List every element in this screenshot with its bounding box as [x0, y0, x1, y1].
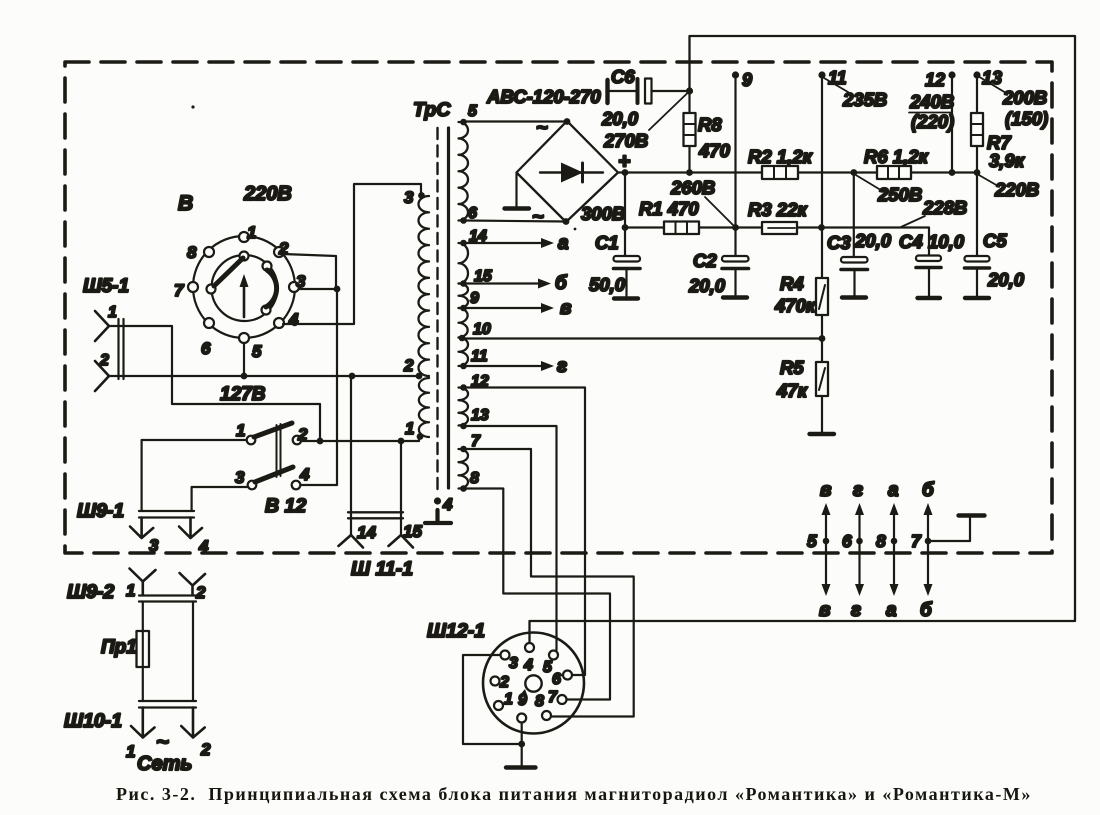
connector Ш11-1 pin 15 fork symbol: [389, 535, 414, 548]
ground of R5: [821, 396, 823, 432]
svg-text:б: б: [555, 273, 568, 294]
wire: B12 contact 3 to Ш9-1 pin 4: [192, 487, 248, 510]
svg-text:7: 7: [548, 689, 558, 706]
svg-text:в: в: [820, 480, 831, 501]
svg-text:4: 4: [288, 310, 299, 329]
switch B rotor contact top: [240, 252, 249, 261]
svg-text:4: 4: [523, 657, 533, 674]
connector Ш5-1 pin 1 socket symbol: [95, 311, 109, 341]
Ш12-1 contact 6: [563, 671, 572, 680]
Ш12-1 contact 1: [494, 701, 503, 710]
rotary switch B outer circle: [193, 236, 295, 338]
Ш12-1 contact 7: [558, 695, 567, 704]
svg-text:8: 8: [470, 470, 479, 487]
secondary pin 15 dot: [460, 280, 467, 287]
Ш12-1 contact 9: [517, 714, 526, 723]
svg-text:3: 3: [509, 655, 518, 672]
wire: node 12 down to rail: [951, 75, 953, 173]
node 13 terminal dot: [973, 71, 980, 78]
wire: Ш12-1 contact 9 to ground: [521, 723, 523, 766]
svg-text:Ш9-2: Ш9-2: [67, 581, 114, 603]
wire: R4 to R5: [821, 315, 823, 362]
wire: junction down to Ш11-1 pin 15: [400, 441, 402, 535]
switch B contact 6: [204, 318, 214, 328]
svg-text:С5: С5: [983, 230, 1007, 251]
wire: 228В line to C4: [822, 228, 930, 256]
svg-text:9: 9: [470, 290, 479, 307]
connector Ш9-1 body bars: [139, 511, 194, 518]
switch B rotor arc segment: [266, 270, 277, 307]
svg-text:3: 3: [404, 188, 414, 207]
switch B contact 8: [204, 247, 214, 257]
switch B contact 3: [289, 282, 299, 292]
junction dot 250В node / C3 branch: [850, 169, 857, 176]
wire: pin 5 to bridge AC top: [466, 120, 567, 122]
switch B12 contact 3: [248, 481, 257, 490]
junction dot 260В node: [732, 224, 739, 231]
svg-text:1: 1: [236, 421, 245, 440]
svg-text:20,0: 20,0: [688, 275, 726, 296]
svg-text:3: 3: [149, 536, 159, 555]
wire: rail between R2 and R6: [798, 171, 877, 173]
svg-text:5: 5: [807, 531, 817, 551]
wire: pin 12 to Ш12-1 contact 6: [466, 388, 585, 676]
svg-text:5: 5: [252, 342, 262, 361]
svg-text:240В: 240В: [909, 91, 954, 112]
node 12 terminal dot: [948, 71, 955, 78]
junction dot 220В node: [974, 169, 981, 176]
capacitor C3: [841, 257, 868, 263]
wire: 220В node down to C5: [976, 173, 978, 257]
svg-text:а: а: [886, 600, 897, 621]
svg-text:260В: 260В: [670, 177, 715, 198]
bridge AC top vertex dot: [564, 118, 571, 125]
pointer line to 228В: [901, 216, 925, 227]
svg-text:6: 6: [552, 671, 561, 688]
resistor R4: [816, 278, 828, 315]
capacitor C6 lead left: [610, 90, 636, 92]
output arrow v from pin 9: [466, 307, 542, 309]
svg-text:Рис. 3-2. Принципиальная схем: Рис. 3-2. Принципиальная схема блока пит…: [116, 784, 1032, 804]
secondary pin 6 dot: [460, 217, 467, 224]
switch B contact 1: [239, 232, 249, 242]
switch B contact 4: [274, 318, 284, 328]
Ш12-1 contact 4: [525, 643, 534, 652]
transformer secondary winding 10-11: [459, 338, 469, 367]
transformer screen dashed line: [436, 128, 438, 494]
svg-text:8: 8: [187, 243, 197, 262]
transformer secondary winding 5-6: [459, 122, 469, 221]
wire: junction down to В12 contact 4: [301, 289, 337, 485]
junction dot R1 left / 300В node: [622, 224, 629, 231]
junction dot node 12 line: [949, 169, 956, 176]
dashed enclosure border of power-supply unit: [65, 62, 1052, 553]
junction dot R4/R5/pin10: [819, 335, 826, 342]
Ш12-1 contact 2: [491, 677, 500, 686]
connector Ш9-2 body bars: [139, 596, 196, 602]
primary pin 1 dot: [417, 433, 424, 440]
primary pin 2 dot: [416, 373, 423, 380]
svg-text:б: б: [922, 480, 935, 501]
junction dot Ш11-1 pin 14 branch on 127В line: [349, 373, 356, 380]
svg-text:~: ~: [156, 729, 169, 754]
pointer line to 235В: [824, 78, 848, 92]
junction dot C6/R8/loop node: [686, 87, 693, 94]
svg-text:R8: R8: [698, 114, 722, 135]
svg-text:Ш 11-1: Ш 11-1: [351, 558, 413, 580]
connector Ш11-1 pin 14 fork symbol: [339, 535, 364, 548]
svg-text:220В: 220В: [243, 183, 292, 205]
capacitor C6 negative plate: [636, 79, 640, 103]
connector Ш9-1 pin 4 arrow symbol: [179, 518, 202, 539]
wire: Ш5-1 pin 1 to junction on В12 contact 2 net: [109, 326, 320, 441]
wire: Ш9-2 pin1 to Ш10-1 pin1 through fuse: [142, 602, 144, 702]
capacitor C6 chassis bar: [605, 80, 609, 103]
switch B12 contact 2: [293, 436, 302, 445]
svg-text:50,0: 50,0: [589, 274, 626, 295]
resistor R1: [625, 226, 736, 228]
svg-text:В: В: [178, 192, 193, 215]
svg-text:1: 1: [126, 742, 135, 761]
junction dot Ш5-1 pin1 branch: [317, 438, 324, 445]
svg-text:1: 1: [126, 581, 135, 600]
bridge diode symbol: [540, 171, 603, 173]
svg-text:б: б: [920, 600, 933, 621]
Ш12-1 contact 5: [549, 651, 558, 660]
Ш12-1 contact 3: [501, 651, 510, 660]
capacitor C1: [614, 256, 641, 262]
svg-text:270В: 270В: [603, 130, 648, 151]
transformer secondary winding 12-13: [459, 388, 469, 426]
wire: pin 7 arrow to chassis: [928, 518, 970, 541]
node 9 terminal dot: [732, 71, 739, 78]
wire: switch contact 3 to junction: [299, 288, 337, 290]
connector Ш10-1 pin 2 arrow symbol: [181, 708, 205, 738]
svg-text:R1 470: R1 470: [639, 198, 699, 219]
pointer line to 260В: [705, 197, 734, 226]
svg-text:С6: С6: [611, 66, 635, 87]
switch B rotor arrow: [243, 281, 246, 317]
bridge AC bottom vertex dot: [563, 218, 570, 225]
transformer primary winding lower section: [419, 378, 429, 437]
svg-text:5: 5: [468, 103, 478, 120]
svg-text:ТрС: ТрС: [413, 99, 451, 121]
wire: pin 10 to R4/R5 junction: [462, 337, 822, 339]
wire: pin 7 to Ш12-1 contact 8: [466, 449, 634, 717]
svg-text:7: 7: [174, 281, 185, 300]
transformer secondary winding 7-8: [459, 449, 469, 489]
svg-text:Сеть: Сеть: [137, 753, 192, 775]
svg-text:а: а: [888, 480, 899, 501]
svg-text:470к: 470к: [774, 295, 817, 316]
svg-text:В 12: В 12: [265, 495, 306, 517]
connector Ш12-1 shell circle: [483, 633, 584, 734]
connector Ш11-1 body bars: [348, 512, 403, 518]
transformer secondary winding 15-9: [459, 284, 469, 309]
output arrows field: arrow pin 6 (g): [858, 511, 860, 588]
svg-text:АВС-120-270: АВС-120-270: [486, 86, 601, 107]
junction dot contact 5 tap on 127В line: [241, 373, 248, 380]
wire: switch contact 5 to 127В line: [243, 343, 245, 376]
svg-text:г: г: [557, 356, 567, 377]
pointer line to 250В: [855, 175, 884, 193]
svg-text:Ш9-1: Ш9-1: [77, 500, 124, 522]
svg-text:6: 6: [842, 531, 852, 551]
svg-text:12: 12: [925, 70, 945, 90]
chassis bar near pin 7 arrow: [959, 513, 985, 517]
wire: Ш9-2 pin2 to Ш10-1 pin2: [192, 602, 194, 702]
chassis bar under Ш12-1: [506, 765, 536, 769]
switch B rotor contact NE: [263, 262, 272, 271]
svg-text:в: в: [819, 600, 830, 621]
switch B contact 5: [239, 333, 249, 343]
svg-text:14: 14: [357, 523, 376, 542]
svg-text:200В: 200В: [1002, 87, 1047, 108]
connector Ш5-1 pin 2 socket symbol: [95, 361, 109, 391]
svg-text:8: 8: [535, 693, 544, 710]
wire: switch contact 4 to transformer pin 3: [283, 184, 421, 324]
stray ink dot: [711, 290, 714, 293]
svg-text:R4: R4: [780, 273, 804, 294]
switch B12 lower lever: [255, 467, 293, 482]
wire: +300V rail from bridge to R2: [618, 171, 762, 173]
svg-text:R6 1,2к: R6 1,2к: [864, 146, 930, 167]
switch B rotor contact W: [207, 285, 216, 294]
svg-text:(150): (150): [1005, 108, 1048, 129]
secondary pin 11 dot: [460, 363, 467, 370]
svg-text:220В: 220В: [994, 179, 1039, 200]
pointer line to 200В: [980, 77, 1007, 93]
junction dot contact3/contact9 ground net: [518, 741, 525, 748]
svg-text:2: 2: [499, 674, 509, 691]
switch B contact 7: [188, 282, 198, 292]
transformer primary winding upper section (220V): [418, 196, 429, 376]
secondary pin 12 dot: [460, 384, 467, 391]
pointer line to 220В: [978, 175, 998, 187]
svg-text:228В: 228В: [922, 197, 967, 218]
svg-text:11: 11: [471, 348, 488, 365]
connector Ш5-1 body bars: [119, 319, 124, 379]
switch B rotor bar: [214, 258, 243, 286]
secondary pin 10 dot: [459, 335, 466, 342]
output arrows field: arrow pin 8 (a): [893, 511, 895, 588]
svg-text:13: 13: [471, 407, 489, 424]
capacitor C2: [734, 255, 736, 257]
wire: pin 13 to Ш12-1 contact 5: [466, 426, 557, 650]
junction dot contacts 2/3: [334, 286, 341, 293]
svg-text:С1: С1: [595, 232, 619, 253]
wire: switch contact 2 to junction: [283, 254, 336, 287]
wire: 127В line from Ш5-1 pin 2 to transformer pin 2: [109, 375, 419, 377]
wire: B12 contact 1 to Ш9-1 pin 3: [142, 440, 247, 510]
svg-text:R3 22к: R3 22к: [748, 199, 808, 220]
svg-text:Ш10-1: Ш10-1: [64, 710, 122, 732]
Ш12-1 key center: [525, 675, 541, 691]
wire: Ш12-1 contact 3 loop to ground: [463, 655, 522, 744]
switch B12 upper lever: [254, 423, 292, 437]
svg-text:4: 4: [299, 465, 310, 484]
resistor R7: [976, 75, 978, 173]
wire: node 270В / C6 up over outer loop to Ш12-1 contact 4: [530, 36, 1076, 643]
connector Ш10-1 body bars: [139, 701, 196, 708]
resistor R6: [877, 166, 911, 179]
output arrows field: arrow pin 7 (b): [927, 511, 929, 588]
wire: node 9 down to C2: [734, 75, 736, 256]
wire: node 11 down to R4: [821, 75, 823, 278]
svg-text:8: 8: [876, 531, 886, 551]
svg-text:300В: 300В: [581, 203, 625, 224]
svg-text:20,0: 20,0: [601, 108, 639, 129]
svg-text:Ш5-1: Ш5-1: [83, 276, 129, 297]
svg-text:2: 2: [99, 352, 109, 369]
capacitor C6 lead right: [652, 90, 690, 92]
transformer secondary winding 9-10: [459, 308, 468, 338]
transformer core solid line: [447, 128, 450, 488]
chassis bar of screen terminal: [425, 510, 451, 523]
fuse Pr1: [137, 631, 150, 667]
svg-text:9: 9: [518, 692, 527, 709]
switch B12 mechanical link: [277, 424, 281, 477]
transformer secondary winding 14-15: [459, 243, 469, 284]
svg-text:Пр1: Пр1: [101, 637, 137, 658]
secondary pin 8 dot: [460, 485, 467, 492]
switch B12 contact 1: [247, 436, 256, 445]
primary pin 3 dot: [418, 192, 425, 199]
switch B12 contact 4: [292, 481, 301, 490]
resistor R3: [736, 226, 822, 228]
svg-text:7: 7: [911, 531, 922, 551]
svg-text:127В: 127В: [220, 384, 266, 405]
svg-text:470: 470: [698, 140, 731, 161]
svg-text:10,0: 10,0: [928, 231, 965, 252]
svg-text:1: 1: [405, 419, 414, 438]
svg-text:С2: С2: [693, 250, 717, 271]
svg-text:47к: 47к: [776, 380, 809, 401]
output arrows field: arrow pin 5 (v): [825, 511, 827, 588]
svg-text:г: г: [851, 600, 861, 621]
svg-text:9: 9: [742, 70, 752, 90]
resistor R2: [762, 166, 798, 179]
svg-text:(220): (220): [911, 111, 954, 132]
node 11 terminal dot: [818, 71, 825, 78]
resistor R5: [816, 362, 828, 396]
wire: 250В node down to C3: [853, 173, 855, 258]
svg-text:15: 15: [403, 522, 422, 541]
Ш12-1 contact 8: [542, 711, 551, 720]
connector Ш9-1 pin 3 arrow symbol: [130, 518, 153, 539]
svg-text:10: 10: [473, 321, 491, 338]
svg-text:3: 3: [235, 468, 245, 487]
svg-text:в: в: [560, 298, 571, 319]
svg-text:С3: С3: [827, 232, 851, 253]
output arrow b from pin 15: [466, 282, 539, 284]
wire: 127В junction down to Ш11-1 pin 14: [350, 376, 352, 535]
stray ink dot: [191, 105, 194, 108]
output arrow g from pin 11: [466, 365, 542, 367]
wire: +300V node down to C1: [624, 173, 626, 257]
wire: rail after R6 to 220В node: [910, 171, 977, 173]
connector Ш9-2 pin 2 fork symbol: [180, 573, 206, 595]
secondary pin 13 dot: [460, 423, 467, 430]
svg-text:3,9к: 3,9к: [989, 150, 1026, 171]
svg-text:20,0: 20,0: [987, 269, 1025, 290]
svg-text:~: ~: [532, 206, 544, 228]
pointer line to 270В: [649, 93, 688, 131]
wire: pin 6 to bridge AC bottom: [466, 221, 566, 222]
capacitor C5: [965, 256, 990, 262]
svg-text:1: 1: [504, 691, 513, 708]
svg-text:250В: 250В: [877, 184, 922, 205]
svg-text:R2 1,2к: R2 1,2к: [748, 146, 814, 167]
transformer screen terminal dot node 4: [434, 497, 441, 504]
junction dot Ш11-1 pin15 branch: [398, 438, 405, 445]
junction dot R8 bottom: [686, 169, 693, 176]
svg-text:R5: R5: [780, 357, 804, 378]
stray ink dot: [574, 228, 577, 231]
wire: pin 8 to Ш12-1 contact 7: [466, 489, 610, 700]
output arrow a from pin 14: [466, 242, 542, 244]
svg-text:7: 7: [471, 433, 481, 450]
rotary switch B inner rotor circle: [212, 255, 278, 321]
wire: B12 contact 2 to transformer pin 1: [302, 438, 420, 442]
svg-text:4: 4: [198, 537, 209, 556]
capacitor C4: [916, 256, 941, 262]
switch B rotor contact SE: [262, 306, 271, 315]
svg-text:2: 2: [195, 583, 206, 602]
connector Ш9-2 pin 1 fork symbol: [130, 569, 156, 596]
svg-text:~: ~: [536, 117, 548, 139]
svg-text:г: г: [853, 480, 863, 501]
secondary pin 5 dot: [460, 119, 467, 126]
svg-text:С4: С4: [899, 231, 923, 252]
svg-text:4: 4: [442, 495, 453, 514]
svg-text:2: 2: [200, 740, 211, 759]
svg-text:Ш12-1: Ш12-1: [427, 620, 485, 642]
ground of bridge left vertex: [515, 174, 517, 207]
svg-text:а: а: [558, 233, 569, 254]
capacitor C6 positive plate: [645, 79, 652, 104]
svg-text:20,0: 20,0: [854, 230, 892, 251]
svg-text:1: 1: [247, 223, 256, 242]
secondary pin 14 dot: [460, 240, 467, 247]
resistor R8: [688, 94, 690, 173]
junction dot 228В node: [818, 224, 825, 231]
secondary pin 7 dot: [460, 446, 467, 453]
secondary pin 9 dot: [460, 305, 467, 312]
svg-text:6: 6: [201, 339, 211, 358]
switch B contact 2: [274, 247, 284, 257]
svg-text:1: 1: [108, 304, 117, 321]
connector Ш10-1 pin 1 arrow symbol: [131, 708, 155, 738]
junction dot C1 branch: [622, 169, 629, 176]
rectifier bridge ABC-120-270 diamond: [517, 121, 619, 222]
svg-text:2: 2: [403, 356, 414, 375]
